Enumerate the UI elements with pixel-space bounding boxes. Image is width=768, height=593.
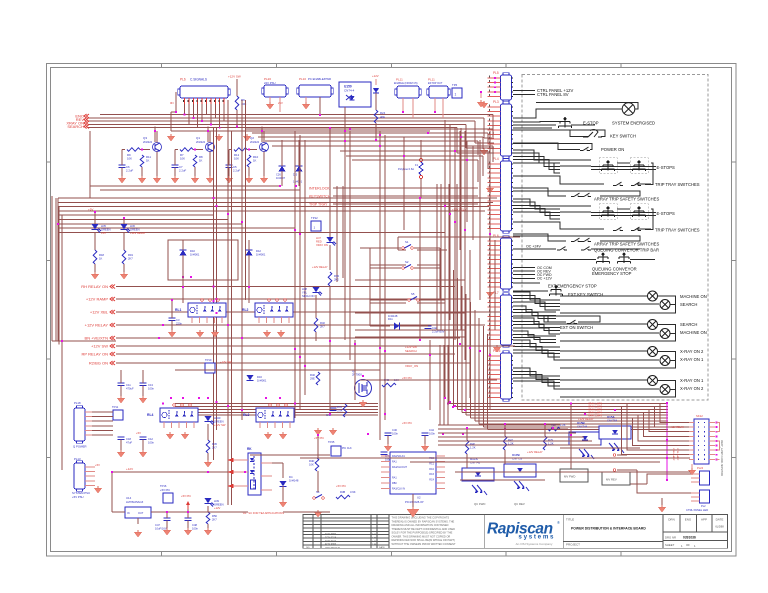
- svg-text:MV REV: MV REV: [606, 478, 617, 482]
- svg-text:+12V RELAY: +12V RELAY: [85, 323, 109, 328]
- svg-text:E-STOP: E-STOP: [583, 121, 599, 126]
- svg-text:MACHINE ON: MACHINE ON: [680, 330, 707, 335]
- svg-text:C12: C12: [148, 437, 153, 441]
- svg-text:RC4: RC4: [429, 479, 434, 482]
- svg-text:GREEN: GREEN: [130, 228, 140, 232]
- svg-text:47uF: 47uF: [126, 441, 132, 445]
- svg-text:U15A: U15A: [607, 415, 616, 419]
- svg-text:ARRAY TRIP SAFETY SWITCHES: ARRAY TRIP SAFETY SWITCHES: [594, 242, 659, 247]
- svg-text:LM78L05ACZ: LM78L05ACZ: [126, 500, 144, 504]
- svg-text:RP RELAY ON: RP RELAY ON: [82, 352, 109, 357]
- svg-text:GREEN: GREEN: [101, 228, 111, 232]
- svg-text:SYSTEM ENERGISED: SYSTEM ENERGISED: [612, 121, 655, 126]
- svg-text:QUEUING CONVEYOR TRIP BAR: QUEUING CONVEYOR TRIP BAR: [594, 248, 659, 253]
- svg-text:100n: 100n: [192, 527, 198, 531]
- svg-text:RA4/CLKOUT: RA4/CLKOUT: [392, 466, 408, 469]
- svg-text:+12V: +12V: [372, 74, 379, 78]
- svg-text:1.2K: 1.2K: [470, 446, 476, 450]
- svg-text:X-RAY ON 2: X-RAY ON 2: [680, 386, 704, 391]
- svg-text:PL4: PL4: [493, 157, 499, 161]
- svg-text:LD8: LD8: [302, 287, 307, 291]
- svg-text:1K: 1K: [99, 257, 102, 261]
- svg-text:R3B: R3B: [340, 490, 345, 494]
- svg-text:OC +24V: OC +24V: [526, 245, 541, 249]
- svg-text:XRAY_ON: XRAY_ON: [405, 364, 418, 368]
- svg-text:U15B: U15B: [577, 421, 586, 425]
- svg-text:100n: 100n: [148, 441, 154, 445]
- svg-text:TRIP TRAY SWITCHES: TRIP TRAY SWITCHES: [655, 228, 700, 233]
- svg-text:+5V PIC: +5V PIC: [336, 484, 346, 488]
- svg-text:E-STOPS: E-STOPS: [657, 211, 676, 216]
- svg-text:SEARCH: SEARCH: [680, 302, 697, 307]
- svg-text:2.2uF: 2.2uF: [233, 169, 240, 173]
- svg-text:R45: R45: [212, 442, 217, 446]
- svg-text:10uF/16V: 10uF/16V: [155, 527, 167, 531]
- svg-text:SHEET: SHEET: [665, 543, 675, 547]
- svg-text:R32: R32: [320, 321, 325, 325]
- svg-text:EXT ON SWITCH: EXT ON SWITCH: [560, 325, 593, 330]
- svg-text:SRCH ON: SRCH ON: [302, 294, 314, 298]
- svg-text:INTERLOCK: INTERLOCK: [309, 187, 330, 191]
- svg-text:OWNER. THIS DRAWING MUST NOT C: OWNER. THIS DRAWING MUST NOT COPIED OR: [392, 534, 451, 538]
- svg-text:E-STOPS: E-STOPS: [657, 165, 676, 170]
- svg-text:100n: 100n: [429, 432, 435, 436]
- svg-text:TITLE: TITLE: [566, 517, 574, 521]
- svg-text:+5V: +5V: [88, 208, 93, 212]
- svg-text:TP12: TP12: [311, 216, 318, 220]
- svg-text:S1: S1: [405, 240, 409, 244]
- svg-text:2N2222: 2N2222: [143, 140, 153, 144]
- svg-text:1N4001: 1N4001: [256, 253, 266, 257]
- svg-text:ESTOP OUT: ESTOP OUT: [428, 82, 443, 85]
- svg-text:R50: R50: [212, 514, 217, 518]
- svg-text:D12: D12: [256, 249, 261, 253]
- svg-text:C44: C44: [429, 428, 434, 432]
- svg-text:XRAY_LMP5: XRAY_LMP5: [588, 414, 603, 417]
- svg-text:1N4007: 1N4007: [276, 176, 286, 180]
- svg-text:PL7: PL7: [493, 291, 499, 295]
- svg-text:PL2: PL2: [701, 504, 706, 508]
- svg-text:D16: D16: [257, 375, 262, 379]
- svg-text:PL11: PL11: [428, 78, 435, 82]
- svg-text:CN74-4: CN74-4: [344, 89, 355, 93]
- svg-text:PL5: PL5: [493, 71, 499, 75]
- svg-text:An OSI Systems Company: An OSI Systems Company: [516, 542, 553, 546]
- svg-text:THEREIN MUST BE KEPT CONFIDENT: THEREIN MUST BE KEPT CONFIDENTIAL AND US…: [392, 527, 456, 531]
- svg-text:MV FWD: MV FWD: [564, 475, 575, 479]
- svg-text:R41: R41: [337, 405, 342, 409]
- svg-text:R40: R40: [310, 373, 315, 377]
- svg-text:TP6: TP6: [452, 83, 458, 87]
- svg-text:X-RAY ON 1: X-RAY ON 1: [680, 378, 704, 383]
- svg-text:C3: C3: [176, 318, 180, 322]
- svg-text:OUT: OUT: [138, 512, 144, 515]
- svg-text:POWER ON: POWER ON: [601, 147, 624, 152]
- svg-text:+12V SW: +12V SW: [214, 423, 226, 427]
- svg-text:+12V XBL: +12V XBL: [90, 310, 109, 315]
- svg-text:+12V RELAY: +12V RELAY: [312, 265, 328, 269]
- svg-text:2K2: 2K2: [334, 278, 339, 282]
- svg-text:3.9K: 3.9K: [337, 409, 343, 413]
- svg-text:GREEN: GREEN: [214, 420, 224, 424]
- svg-text:GREEN: GREEN: [214, 503, 224, 507]
- svg-text:TP11: TP11: [112, 405, 119, 409]
- svg-text:RA3/CLK IN: RA3/CLK IN: [392, 487, 405, 490]
- svg-text:2K7: 2K7: [212, 446, 217, 450]
- svg-text:1N4001: 1N4001: [190, 253, 200, 257]
- svg-text:YEL: YEL: [302, 291, 308, 295]
- svg-text:1N4001: 1N4001: [257, 379, 267, 383]
- svg-text:PL3: PL3: [493, 100, 499, 104]
- svg-text:+12V SW: +12V SW: [91, 344, 108, 349]
- svg-text:THIS DRAWING (INCLUDING THE CO: THIS DRAWING (INCLUDING THE COPYRIGHTS: [392, 516, 450, 520]
- svg-text:1K: 1K: [146, 159, 150, 163]
- svg-text:0391036: 0391036: [683, 536, 696, 540]
- svg-text:RL3: RL3: [243, 413, 250, 417]
- svg-text:SK12: SK12: [696, 414, 703, 418]
- svg-text:+12V SW: +12V SW: [228, 75, 241, 79]
- svg-text:TRIP TRAY: TRIP TRAY: [309, 203, 328, 207]
- svg-text:PL13: PL13: [74, 457, 81, 461]
- svg-text:+5V: +5V: [136, 431, 141, 435]
- svg-text:R18: R18: [99, 253, 104, 257]
- svg-text:ENABLE (FROM C5): ENABLE (FROM C5): [394, 82, 418, 85]
- svg-text:REPRODUCED NOR SHALL BE(IN WHO: REPRODUCED NOR SHALL BE(IN WHOLE OR PART…: [392, 538, 456, 542]
- svg-text:RC2: RC2: [429, 468, 434, 471]
- svg-text:APP: APP: [701, 518, 707, 522]
- svg-text:+5V: +5V: [101, 231, 106, 235]
- svg-text:Polyfuse 0.6A: Polyfuse 0.6A: [398, 167, 414, 171]
- svg-text:PL24: PL24: [697, 466, 704, 470]
- svg-text:470uF: 470uF: [126, 387, 134, 391]
- svg-text:SEARCH: SEARCH: [405, 349, 417, 353]
- svg-text:PL18: PL18: [74, 401, 81, 405]
- svg-text:6L/D98: 6L/D98: [715, 525, 724, 529]
- svg-text:DRAWING AND ALL INFORMATION CO: DRAWING AND ALL INFORMATION CONTAINED: [392, 523, 449, 527]
- svg-text:Q3: Q3: [143, 136, 147, 140]
- svg-text:R33: R33: [334, 274, 339, 278]
- svg-text:C18: C18: [126, 437, 131, 441]
- svg-text:ARRAY TRIP SAFETY SWITCHES: ARRAY TRIP SAFETY SWITCHES: [594, 197, 659, 202]
- svg-text:U2: U2: [417, 496, 421, 500]
- svg-text:PIC16F628-I/P: PIC16F628-I/P: [405, 500, 424, 504]
- svg-text:RL4: RL4: [147, 413, 154, 417]
- svg-text:+12V SW: +12V SW: [220, 360, 232, 364]
- svg-text:"RF" SU FOR TEA APPLICATIONS: "RF" SU FOR TEA APPLICATIONS: [242, 511, 284, 515]
- svg-text:PROJECT: PROJECT: [566, 543, 580, 547]
- svg-text:WITHOUT THE OWNERS PRIOR WRITT: WITHOUT THE OWNERS PRIOR WRITTEN CONSENT: [392, 542, 456, 546]
- svg-text:DRG NR: DRG NR: [665, 535, 676, 539]
- svg-text:+12V RAMP: +12V RAMP: [86, 297, 108, 302]
- svg-text:EMERGENCY STOP: EMERGENCY STOP: [592, 271, 632, 276]
- svg-text:2.2uF: 2.2uF: [126, 169, 133, 173]
- svg-text:C26: C26: [276, 173, 281, 177]
- svg-text:LD5: LD5: [101, 224, 106, 228]
- svg-text:+12V RELAY: +12V RELAY: [527, 450, 543, 454]
- svg-text:RB0: RB0: [392, 482, 397, 485]
- svg-text:TP10: TP10: [205, 358, 212, 362]
- svg-text:1N4001: 1N4001: [293, 180, 303, 184]
- svg-text:1N4148: 1N4148: [388, 314, 398, 318]
- svg-text:R2/BG ON: R2/BG ON: [89, 361, 108, 366]
- svg-text:RL1: RL1: [175, 308, 182, 312]
- svg-text:1: 1: [455, 93, 457, 97]
- svg-text:10K: 10K: [234, 157, 239, 161]
- svg-text:D4: D4: [289, 475, 293, 479]
- svg-text:MACHINE ON: MACHINE ON: [680, 294, 707, 299]
- svg-text:X-RAY ON 2: X-RAY ON 2: [680, 349, 704, 354]
- svg-text:RK: RK: [247, 447, 252, 451]
- svg-text:QC REV: QC REV: [514, 502, 525, 506]
- svg-text:D10: D10: [190, 249, 195, 253]
- svg-text:+5V PIC: +5V PIC: [160, 488, 170, 492]
- svg-text:SEARCH: SEARCH: [67, 124, 84, 129]
- svg-text:CTRL PANEL 8V: CTRL PANEL 8V: [537, 92, 569, 97]
- svg-text:BN +VE/XTN: BN +VE/XTN: [85, 336, 109, 341]
- svg-text:S2: S2: [405, 260, 409, 264]
- svg-text:100n: 100n: [392, 432, 398, 436]
- svg-text:RC3: RC3: [429, 473, 434, 476]
- svg-text:RED: RED: [316, 240, 322, 244]
- svg-text:PIC CLK: PIC CLK: [342, 447, 352, 450]
- svg-text:R4D: R4D: [309, 459, 314, 463]
- svg-text:SOLEY FOR THE PURPOSE(S) SPECI: SOLEY FOR THE PURPOSE(S) SPECIFIED BY TH…: [392, 531, 453, 535]
- svg-text:+5V: +5V: [95, 463, 100, 467]
- svg-text:2N7000: 2N7000: [352, 373, 362, 377]
- svg-text:PL11: PL11: [396, 78, 403, 82]
- svg-text:S5: S5: [411, 292, 415, 296]
- svg-text:TP16: TP16: [160, 484, 167, 488]
- svg-text:+12V: +12V: [214, 506, 221, 510]
- svg-text:LD9: LD9: [214, 499, 219, 503]
- svg-text:+5V PIC: +5V PIC: [314, 436, 324, 440]
- svg-text:C47: C47: [155, 523, 160, 527]
- svg-text:R19: R19: [128, 253, 133, 257]
- svg-text:DRN: DRN: [668, 518, 675, 522]
- svg-text:DESCRIPTION: DESCRIPTION: [325, 547, 340, 549]
- svg-text:+12V RELAY: +12V RELAY: [578, 417, 594, 421]
- svg-text:Q2: Q2: [250, 136, 254, 140]
- svg-text:OC +12V: OC +12V: [537, 277, 552, 281]
- svg-text:1N4148: 1N4148: [289, 479, 299, 483]
- svg-text:XRAY_LAMP CURR. MONITOR: XRAY_LAMP CURR. MONITOR: [720, 440, 723, 476]
- svg-text:THEREIN) IS OWNED BY RAPISCAN: THEREIN) IS OWNED BY RAPISCAN SYSTEMS. T…: [392, 519, 455, 523]
- svg-text:XRAY LAMP: XRAY LAMP: [672, 448, 675, 461]
- svg-text:0N: 0N: [170, 101, 174, 105]
- svg-text:CNY754: CNY754: [607, 419, 618, 423]
- svg-text:TP45: TP45: [328, 440, 335, 444]
- svg-text:DATE: DATE: [379, 546, 385, 549]
- svg-text:OF: OF: [686, 543, 690, 547]
- svg-text:Q POWER: Q POWER: [73, 445, 87, 449]
- svg-text:220n: 220n: [176, 322, 182, 326]
- svg-text:1.2K: 1.2K: [560, 423, 566, 427]
- svg-text:+5V PIC: +5V PIC: [402, 421, 412, 425]
- svg-text:100n: 100n: [148, 387, 154, 391]
- svg-text:29E: 29E: [310, 377, 315, 381]
- svg-text:CTRL LAMP: CTRL LAMP: [676, 448, 679, 461]
- svg-text:TRIP TRAY SWITCHES: TRIP TRAY SWITCHES: [655, 182, 700, 187]
- svg-text:RA1: RA1: [392, 477, 397, 480]
- svg-text:10K: 10K: [180, 157, 185, 161]
- svg-text:s y s t e m s: s y s t e m s: [518, 534, 554, 541]
- svg-text:X-RAY ON 1: X-RAY ON 1: [680, 357, 704, 362]
- svg-text:RC1: RC1: [429, 462, 434, 465]
- svg-text:LD7: LD7: [316, 236, 321, 240]
- svg-text:SEARCH: SEARCH: [680, 322, 697, 327]
- svg-text:2K7: 2K7: [128, 257, 133, 261]
- svg-text:2N2222: 2N2222: [250, 140, 260, 144]
- svg-text:+12V RELAY: +12V RELAY: [130, 231, 146, 235]
- svg-text:2N2222: 2N2222: [196, 140, 206, 144]
- svg-text:C13: C13: [148, 383, 153, 387]
- svg-text:LD40: LD40: [214, 416, 221, 420]
- svg-text:2K7: 2K7: [212, 518, 217, 522]
- svg-text:U17B: U17B: [512, 453, 521, 457]
- svg-text:ISS: ISS: [306, 547, 310, 549]
- svg-text:CNY744: CNY744: [577, 425, 588, 429]
- svg-text:2K7: 2K7: [320, 325, 325, 329]
- svg-text:XRAY ON: XRAY ON: [316, 243, 328, 247]
- svg-text:10K: 10K: [127, 157, 132, 161]
- svg-text:Q1: Q1: [196, 136, 200, 140]
- svg-text:RA1: RA1: [392, 460, 397, 463]
- svg-text:PL6: PL6: [180, 78, 186, 82]
- svg-text:2.2uF: 2.2uF: [179, 169, 186, 173]
- svg-text:DATE: DATE: [716, 518, 724, 522]
- svg-text:C.SIGNALS: C.SIGNALS: [190, 78, 207, 82]
- svg-text:+5V PIC: +5V PIC: [181, 494, 191, 498]
- svg-text:PC ENABLE/PWR: PC ENABLE/PWR: [308, 77, 331, 81]
- svg-text:+12V RELAY: +12V RELAY: [670, 426, 684, 429]
- svg-text:ECN 9066: ECN 9066: [325, 543, 337, 546]
- svg-text:C11: C11: [126, 383, 131, 387]
- svg-text:®: ®: [557, 520, 560, 525]
- svg-text:3.9K: 3.9K: [350, 490, 356, 494]
- svg-text:KEY SWITCH: KEY SWITCH: [610, 134, 636, 139]
- svg-text:CTRL PANEL LED: CTRL PANEL LED: [686, 508, 708, 512]
- svg-text:+5V PSU: +5V PSU: [72, 495, 84, 499]
- svg-text:QC FWD: QC FWD: [474, 502, 485, 506]
- svg-text:ENG: ENG: [685, 518, 692, 522]
- svg-text:IN: IN: [127, 512, 130, 515]
- svg-text:RH RELAY ON: RH RELAY ON: [81, 284, 108, 289]
- svg-text:PL10: PL10: [299, 77, 306, 81]
- svg-text:POWER DISTRIBUTION & INTERFACE: POWER DISTRIBUTION & INTERFACE BOARD: [571, 527, 646, 531]
- svg-text:LD6: LD6: [130, 224, 135, 228]
- svg-text:40E: 40E: [380, 115, 385, 119]
- svg-text:24V PSU: 24V PSU: [264, 81, 276, 85]
- svg-text:1K: 1K: [253, 159, 257, 163]
- svg-text:+5V PIC: +5V PIC: [402, 376, 412, 380]
- svg-text:10K: 10K: [309, 463, 314, 467]
- svg-text:1K: 1K: [199, 159, 203, 163]
- svg-text:RL2: RL2: [242, 308, 249, 312]
- svg-text:C46: C46: [392, 428, 397, 432]
- svg-text:+12V: +12V: [126, 467, 133, 471]
- svg-text:C48: C48: [192, 523, 197, 527]
